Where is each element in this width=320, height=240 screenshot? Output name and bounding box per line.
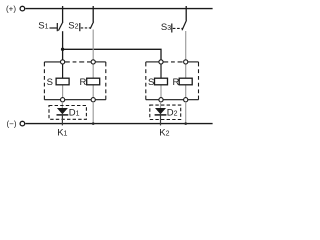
wire bottom supply rail (25, 123, 212, 125)
relay K1 dashed enclosure (44, 62, 105, 100)
wire S1 lower (to K1 S coil) (62, 31, 64, 62)
svg-text:S: S (148, 77, 154, 88)
terminal (+) (20, 6, 25, 11)
terminal (-) (20, 121, 25, 126)
wire K2 R-branch to bottom rail gray (185, 102, 187, 124)
svg-text:(+): (+) (6, 5, 16, 14)
wire K1 S-branch below coil gray (62, 85, 64, 100)
coil S of K1 (47, 77, 70, 88)
svg-text:R: R (80, 77, 87, 88)
node terminal circles K1 (61, 60, 65, 64)
wire K2 S-branch below coil gray (160, 85, 162, 100)
svg-text:S: S (47, 77, 53, 88)
svg-text:(−): (−) (7, 120, 17, 129)
diode D2 (155, 107, 178, 118)
switch S3 (161, 20, 187, 33)
wire interconnect to K2 set branch (63, 49, 161, 60)
coil S of K2 (148, 77, 168, 88)
wire K1 R-branch inside gray (92, 62, 94, 100)
wire S2 lower gray (to K1 R coil) (92, 30, 94, 62)
wire K1 R-branch to bottom rail gray (92, 102, 94, 124)
wire top supply rail (25, 8, 212, 10)
wire K2 S-branch to diode gray (160, 102, 162, 108)
wire S2 branch drop from top rail (92, 6, 94, 22)
diode D1 enclosure dashed (49, 106, 86, 120)
wire K1 S-branch inside (black above coil) (62, 62, 64, 78)
wire D1 to bottom rail gray (61, 116, 63, 126)
svg-text:K2: K2 (159, 128, 169, 139)
wire K2 R-branch inside gray (185, 62, 187, 100)
svg-text:K1: K1 (57, 128, 67, 139)
wire D2 to bottom rail gray (160, 116, 162, 126)
switch S1 (38, 21, 63, 32)
svg-text:S2: S2 (68, 21, 78, 32)
wire S1 branch drop from top rail (62, 6, 64, 22)
svg-text:S1: S1 (38, 21, 48, 32)
relay K2 dashed enclosure (146, 62, 199, 100)
switch S2 (68, 21, 93, 32)
svg-text:S3: S3 (161, 22, 171, 33)
wire K2 S-branch inside (black above coil) (160, 62, 162, 78)
node terminal circles K2 (159, 60, 163, 64)
coil R of K1 (80, 77, 100, 88)
diode D2 enclosure dashed (150, 105, 181, 119)
svg-text:D2: D2 (167, 107, 178, 118)
diode D1 (57, 107, 80, 118)
coil R of K2 (173, 77, 193, 88)
wire S3 lower gray (to K2 R coil) (185, 31, 187, 62)
svg-text:R: R (173, 77, 180, 88)
wire S3 branch drop from top rail (185, 6, 187, 20)
wire K1 S-branch to diode gray (61, 102, 63, 108)
svg-text:D1: D1 (69, 107, 80, 118)
node junction S1/interconnect (61, 48, 64, 51)
